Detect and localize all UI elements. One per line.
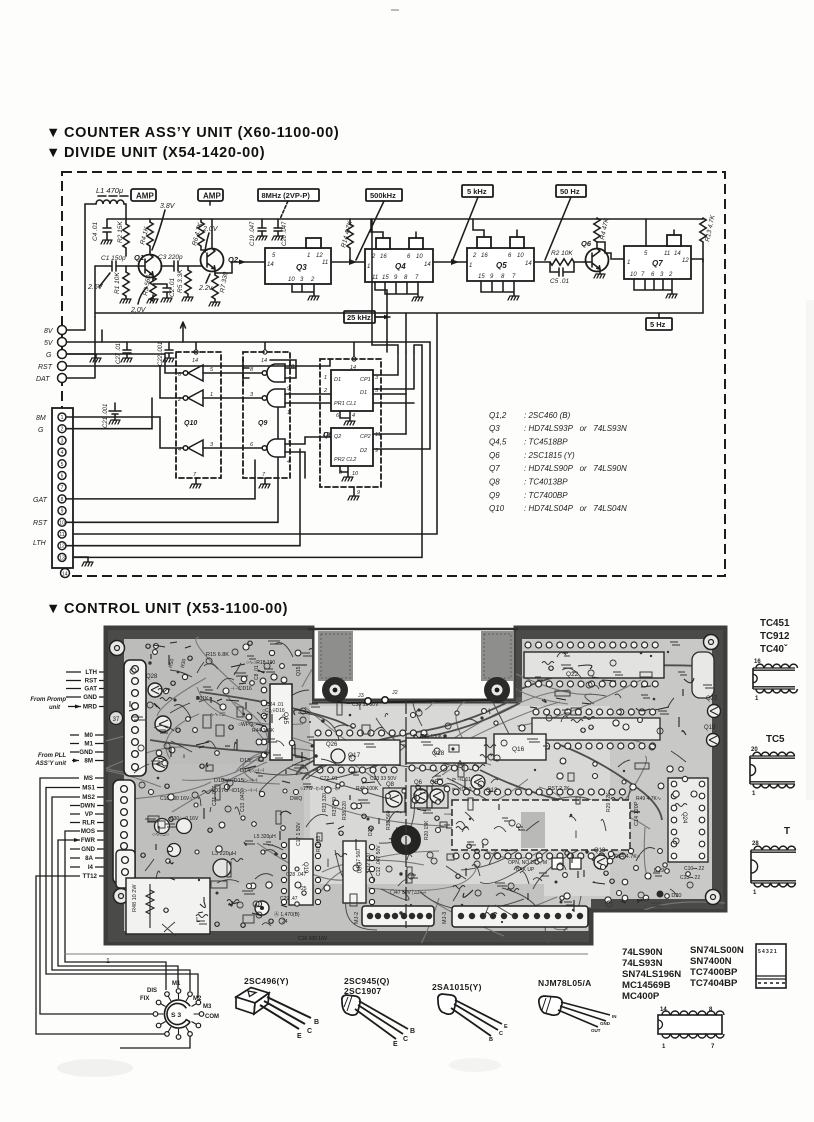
svg-text:16: 16 [380,254,387,260]
svg-text:AMP: AMP [203,192,221,201]
svg-text:8V: 8V [44,328,54,335]
svg-text:C23 33 50V: C23 33 50V [370,776,397,782]
rotary switch spokes [156,991,202,1037]
svg-text:1: 1 [210,392,213,398]
svg-text:14: 14 [192,358,198,364]
wire FWR run to switch top [58,840,178,988]
svg-text:FWR: FWR [81,837,96,844]
PCB small component outlines [148,663,669,923]
wire top rail [107,218,210,220]
svg-text:R37 560: R37 560 [332,797,338,816]
svg-text:GAT: GAT [33,497,48,504]
svg-text:5V: 5V [44,340,54,347]
svg-text:MS1: MS1 [82,785,95,792]
svg-text:2: 2 [310,277,315,283]
PCB screw top-right [704,635,719,650]
Q5 bottom stubs and ground [481,281,514,296]
svg-text:1: 1 [61,415,64,421]
page speck [391,9,399,11]
svg-text:T: T [784,826,790,837]
Q7 bottom stubs and ground [634,279,672,294]
PCB connector C39/C40 left [124,660,146,776]
PCB IC Q16 [494,734,546,760]
svg-text:PR2 CL2: PR2 CL2 [334,457,356,463]
svg-text:1: 1 [662,1044,666,1050]
svg-text:1: 1 [307,253,310,259]
svg-text:R34 4.7K○: R34 4.7K○ [614,854,640,860]
svg-text:- D20: - D20 [668,893,681,899]
wire MS2 run to switch top [52,797,190,991]
svg-text:6: 6 [61,474,64,480]
svg-text:DIS: DIS [147,988,157,994]
svg-text:13: 13 [323,432,330,438]
PCB mount foot left [322,677,348,703]
svg-text:Q26: Q26 [326,742,338,748]
wire top rail mid [210,218,703,220]
svg-text:M1: M1 [172,981,181,987]
svg-text:C5 .01: C5 .01 [550,278,570,285]
svg-text:C21 .001: C21 .001 [103,404,109,428]
svg-text:7: 7 [61,485,64,491]
svg-text:ASS’Y unit: ASS’Y unit [34,761,67,767]
svg-text:R49 4.7K∿: R49 4.7K∿ [636,796,661,802]
svg-text:14: 14 [261,358,267,364]
PCB small boxes bottom center [552,858,563,869]
Q7 top tab wire [646,219,674,246]
wire connector pin 13 long run [73,345,422,557]
svg-text:500kHz: 500kHz [370,191,396,200]
svg-text:C: C [499,1031,503,1037]
svg-text:C: C [403,1036,408,1043]
svg-text:Q28: Q28 [146,674,158,680]
svg-text:Q9: Q9 [258,420,267,427]
svg-text:VP: VP [85,811,93,818]
svg-text:R20 15K: R20 15K [424,820,430,840]
svg-text:CP1: CP1 [360,377,371,383]
svg-text:R7 330: R7 330 [219,271,230,293]
ground below R7 [209,302,220,306]
Q5 top tab wires [473,219,517,237]
label box 5Hz [646,318,672,330]
wire q9a input from pin8 [243,360,249,384]
svg-text:14: 14 [525,261,532,267]
wire Q6 collector to Q7 [597,242,624,259]
svg-text:Q3: Q3 [296,263,307,272]
PCB main trace bundle from notch [150,665,700,820]
PCB notch bottom edge [306,697,522,702]
wire Q3 out to Q4 [331,261,365,263]
svg-text:M2: M2 [193,996,202,1002]
svg-text:3: 3 [61,438,64,444]
svg-text:11: 11 [664,251,670,257]
PCB IC Q15 vertical [270,684,292,760]
svg-text:R48 10 2W: R48 10 2W [132,884,138,912]
ground below R5 [182,297,193,301]
PCB notch top edge line [308,628,518,630]
wire G terminal extension [67,353,166,355]
svg-text:C1 150p: C1 150p [101,255,126,262]
svg-text:2SA1015(Y): 2SA1015(Y) [432,982,482,992]
svg-text:DIVIDE UNIT (X54-1420-00): DIVIDE UNIT (X54-1420-00) [64,145,265,161]
svg-text:10: 10 [288,277,295,283]
svg-text:C29 .47: C29 .47 [280,896,298,902]
flip-flop Q8a [331,370,373,411]
svg-text:M0: M0 [84,732,93,739]
svg-text:MS2: MS2 [82,794,95,801]
wire AMP2 tie [209,201,211,205]
wire switch bottom exit [120,1036,190,1048]
PCB extra dark marks [129,641,694,927]
ground below C4 [101,240,112,244]
wire feedback verticals top [372,345,414,434]
IC Q7 (74LS90) [624,246,691,279]
svg-text:C8 .01: C8 .01 [254,665,260,680]
svg-text:2.0V: 2.0V [202,226,219,233]
PCB mount pad right in notch [481,631,514,681]
svg-text:C12 .047 50V: C12 .047 50V [376,845,382,876]
label box 5kHz [462,185,493,197]
svg-text:1: 1 [752,791,756,797]
svg-text:CONTROL UNIT (X53-1100-00): CONTROL UNIT (X53-1100-00) [64,601,288,617]
connector strip P1 [52,408,73,568]
svg-text:16: 16 [481,253,488,259]
wire 25kHz to divider [375,316,390,318]
svg-text:E: E [504,1024,508,1030]
IC Q8 dashed box [320,359,381,487]
svg-text:2SC496(Y): 2SC496(Y) [244,976,289,986]
svg-text:IN: IN [612,1014,617,1019]
svg-text:4: 4 [61,450,64,456]
svg-text:TC7400BP: TC7400BP [690,967,738,978]
PCB mount foot right [484,677,510,703]
svg-text:NJM78L05/A: NJM78L05/A [538,978,592,988]
svg-text:RLR: RLR [82,820,95,827]
PCB shading top-left [124,639,312,764]
svg-text:4: 4 [352,413,355,419]
svg-text:C28 .047: C28 .047 [286,872,307,878]
svg-text:9: 9 [357,490,360,496]
svg-text:10: 10 [352,471,359,477]
wire 8V riser [102,322,186,342]
svg-text:1: 1 [469,263,472,269]
PCB mount pad left in notch [318,631,353,681]
svg-text:TT12: TT12 [83,873,98,880]
svg-text:11: 11 [375,432,381,438]
svg-text:SN7400N: SN7400N [690,956,732,967]
PCB border band top-right [516,630,723,639]
svg-text:1: 1 [367,264,370,270]
svg-text:10: 10 [288,364,295,370]
label box AMP 1 [131,189,156,201]
PCB board outline [106,628,725,943]
svg-text:I4: I4 [88,864,94,871]
svg-text:15: 15 [478,274,485,280]
svg-text:L1 470μ: L1 470μ [96,186,123,195]
ground G terminal [95,354,97,358]
svg-text:Q24: Q24 [681,812,687,824]
inverter Q10c [188,440,203,456]
PCB squiggle resistors [158,649,687,918]
svg-text:R32 220: R32 220 [366,853,372,872]
PCB shading mid-left [124,764,304,884]
svg-text:3: 3 [375,375,379,381]
svg-text:74LS90N: 74LS90N [622,947,663,958]
svg-text:COM: COM [205,1014,219,1020]
PCB IC row pads under Q22 [533,709,656,715]
svg-text:1: 1 [753,890,757,896]
scan smudge bottom-left [57,1059,133,1077]
svg-text:From PLL: From PLL [38,753,66,759]
IC Q9 dashed box [243,352,290,478]
PCB circled 37 [110,712,123,725]
svg-text:GND: GND [81,846,95,853]
svg-text:1: 1 [755,696,759,702]
svg-text:⊣⊣⎋D16: ⊣⊣⎋D16 [230,686,252,692]
svg-text:G: G [38,427,44,434]
Q8 ground below box [353,487,355,496]
svg-text:14: 14 [267,262,274,268]
PCB resistor box R48 bottom-left [126,878,210,934]
svg-text:12: 12 [682,258,689,264]
PCB shading top-right [522,639,712,759]
PCB scattered pads [149,644,698,907]
svg-text:C4 .01: C4 .01 [92,221,99,241]
wire vcc stub Q8 [353,342,355,357]
svg-text:Q10: Q10 [184,420,197,427]
PCB shading bottom strip [124,884,544,931]
inverter Q10a [188,365,203,381]
PCB dark toroid L5 [391,825,421,855]
svg-text:8A: 8A [85,855,93,862]
PCB notch edge left [306,630,313,701]
NAND Q9b [267,389,285,407]
wire MS run to switch left [40,778,153,1014]
svg-text:4: 4 [287,459,290,465]
wire nand outputs to Q8 [285,394,414,478]
IC Q3 (74LS93) [265,248,331,284]
svg-text:FIX: FIX [140,996,149,1002]
svg-text:▼: ▼ [46,125,61,141]
PCB transistor Q29 [155,716,171,732]
wire G pin2 right [66,398,152,429]
svg-text:5: 5 [210,367,214,373]
svg-text:Q6: Q6 [489,451,500,460]
svg-text:12: 12 [316,253,323,259]
PCB pads row C34 [315,730,427,736]
svg-text:Q7: Q7 [489,464,500,473]
wire vertical feedback x372 [371,219,373,345]
ground below Q6 [594,274,605,278]
svg-text:Q6: Q6 [581,239,592,248]
PCB border band right [712,630,723,908]
svg-text:8MHz (2VP-P): 8MHz (2VP-P) [262,191,311,200]
svg-text:C10⎓.22: C10⎓.22 [684,866,704,872]
svg-text:GAT: GAT [84,686,97,693]
label box 50Hz [556,185,586,197]
PCB screw bottom-left [114,889,129,904]
Q3 bottom stubs and ground [292,284,314,296]
svg-text:D1: D1 [334,377,341,383]
svg-text:8M: 8M [84,758,93,765]
PCB fine dark doodles [130,641,714,936]
label box 25kHz [344,311,375,323]
PCB jumper wire J3 J2 across notch [337,700,490,703]
svg-text:: HD74LS04P or 74LS04N: : HD74LS04P or 74LS04N [524,504,627,513]
PCB IC Q23 big [453,789,625,795]
svg-text:R2 10K: R2 10K [551,250,573,257]
svg-text:7: 7 [711,1044,715,1050]
svg-text:Q9: Q9 [489,491,500,500]
svg-text:6: 6 [250,442,254,448]
svg-text:37: 37 [113,717,120,723]
svg-text:M3: M3 [203,1004,212,1010]
svg-text:8: 8 [250,367,254,373]
Q4 top tab wires [371,219,416,238]
wire 8MHz label leader [280,201,288,219]
svg-text:2SC945(Q): 2SC945(Q) [344,976,390,986]
svg-text:C14 120P: C14 120P [634,801,640,826]
svg-text:1: 1 [287,410,290,416]
svg-text:3: 3 [250,392,254,398]
NAND Q9c [267,439,285,457]
svg-text:7: 7 [262,472,266,478]
svg-text:R1 10K: R1 10K [114,272,121,294]
svg-text:2: 2 [323,388,327,394]
svg-text:2.2v: 2.2v [198,285,213,292]
svg-text:R15 6.8K: R15 6.8K [206,652,229,658]
svg-text:R2 15K: R2 15K [117,221,124,243]
IC Q5 (TC4518) [467,248,534,281]
svg-text:L5 320μH: L5 320μH [254,834,276,840]
svg-text:: TC7400BP: : TC7400BP [524,491,568,500]
svg-text:〇47 50V⏐△▷⊣: 〇47 50V⏐△▷⊣ [390,889,426,896]
svg-text:2: 2 [668,272,673,278]
svg-text:Q10: Q10 [489,504,505,513]
PCB transistor Q11 bottom-left [153,757,168,772]
wire vcc stub Q9 [264,342,266,350]
svg-text:3.8V: 3.8V [160,203,176,210]
svg-text:R3 560: R3 560 [142,274,153,296]
rotary switch S3 body [164,1000,190,1028]
wire 8M pin1 to gates [66,417,160,440]
svg-text:unit: unit [49,705,61,711]
wire Q2 emitter to Q3 [215,262,265,273]
inverter Q10b [188,390,203,406]
svg-text:LTH: LTH [33,540,47,547]
wire 500kHz leader [356,201,384,260]
svg-text:R33 320: R33 320 [322,793,328,812]
wire connector pin 11 long run [73,313,437,534]
svg-text:J2: J2 [392,690,398,696]
svg-text:TC912: TC912 [760,631,790,642]
svg-text:Q1,2: Q1,2 [489,411,507,420]
wire Q4 out to Q5 [433,261,467,263]
PCB shading center light [310,706,610,896]
svg-text:Q7: Q7 [652,259,663,268]
Q4 bottom stubs and ground [385,282,418,297]
svg-text:C16 100 16V: C16 100 16V [298,936,328,942]
svg-text:R5 3.3K: R5 3.3K [177,269,184,293]
svg-text:2SC1907: 2SC1907 [344,986,382,996]
wire Q4 pin11 down 25kHz [375,282,387,317]
svg-text:: 2SC460 (B): : 2SC460 (B) [524,411,571,420]
wire DAT riser join [94,377,96,379]
wire 50Hz leader [545,197,571,260]
svg-text:E: E [297,1033,302,1040]
connector pins 1-13 [58,413,66,561]
svg-text:SN74LS196N: SN74LS196N [622,969,681,980]
label box 500kHz [366,189,402,201]
wire vertical 25k down [387,313,406,352]
svg-text:CP2: CP2 [360,434,371,440]
svg-text:: 2SC1815 (Y): : 2SC1815 (Y) [524,451,575,460]
svg-text:GND: GND [79,749,93,756]
PCB scattered dark dots [148,651,669,923]
wire vcc stub Q10 [195,342,197,350]
svg-text:GND: GND [83,694,97,701]
wire input from DAT region [94,266,96,317]
svg-text:12: 12 [59,544,65,550]
svg-text:∿∿○⎋: ∿∿○⎋ [210,712,225,718]
svg-text:Ⓐ 1,470(B): Ⓐ 1,470(B) [274,911,300,918]
svg-text:R4 47K: R4 47K [599,217,610,240]
svg-text:S 3: S 3 [171,1012,181,1019]
svg-text:L3 220μH: L3 220μH [212,851,236,857]
svg-text:Q4: Q4 [395,262,406,271]
wire inv outputs to nands [203,373,262,448]
wire LTH pin12 [66,449,300,546]
svg-text:74LS93N: 74LS93N [622,958,663,969]
svg-text:Q8: Q8 [386,782,395,788]
svg-text:MS: MS [84,775,93,782]
svg-text:B: B [410,1028,415,1035]
wire TT12 run to switch bottom [36,876,165,1034]
wire amp top-left loop [85,204,126,330]
svg-text:TC5: TC5 [766,734,785,745]
svg-text:C24 .01: C24 .01 [266,702,284,708]
PCB IC Q22 top-right [525,642,658,648]
svg-text:2: 2 [61,427,64,433]
svg-text:R44 300K: R44 300K [252,728,275,734]
svg-text:R38 220: R38 220 [342,801,348,820]
svg-text:Q12: Q12 [486,788,498,794]
svg-text:1: 1 [324,375,327,381]
svg-text:5 Hz: 5 Hz [650,320,666,329]
svg-text:15: 15 [382,275,389,281]
svg-text:MJ-2: MJ-2 [354,912,360,924]
PCB IC right column pads [692,652,714,698]
svg-text:10: 10 [517,253,524,259]
label box AMP 2 [198,189,223,201]
PCB IC Q17 [314,740,400,765]
svg-text:C15⎓.22: C15⎓.22 [680,875,700,881]
svg-text:9: 9 [61,509,64,515]
svg-text:8M: 8M [36,415,46,422]
svg-text:5: 5 [288,440,292,446]
PCB border band left [108,630,124,941]
svg-text:MRD: MRD [83,704,98,711]
svg-text:G: G [46,352,52,359]
svg-text:DAT: DAT [36,376,50,383]
flip-flop Q8b [331,428,373,466]
ground below R3 [147,299,158,303]
svg-text:25 kHz: 25 kHz [347,313,371,322]
PCB IC Q20 vertical [343,841,366,903]
svg-text:C19 .047: C19 .047 [250,221,256,246]
svg-text:3: 3 [210,442,214,448]
svg-text:1: 1 [106,958,110,965]
svg-text:1: 1 [627,260,630,266]
